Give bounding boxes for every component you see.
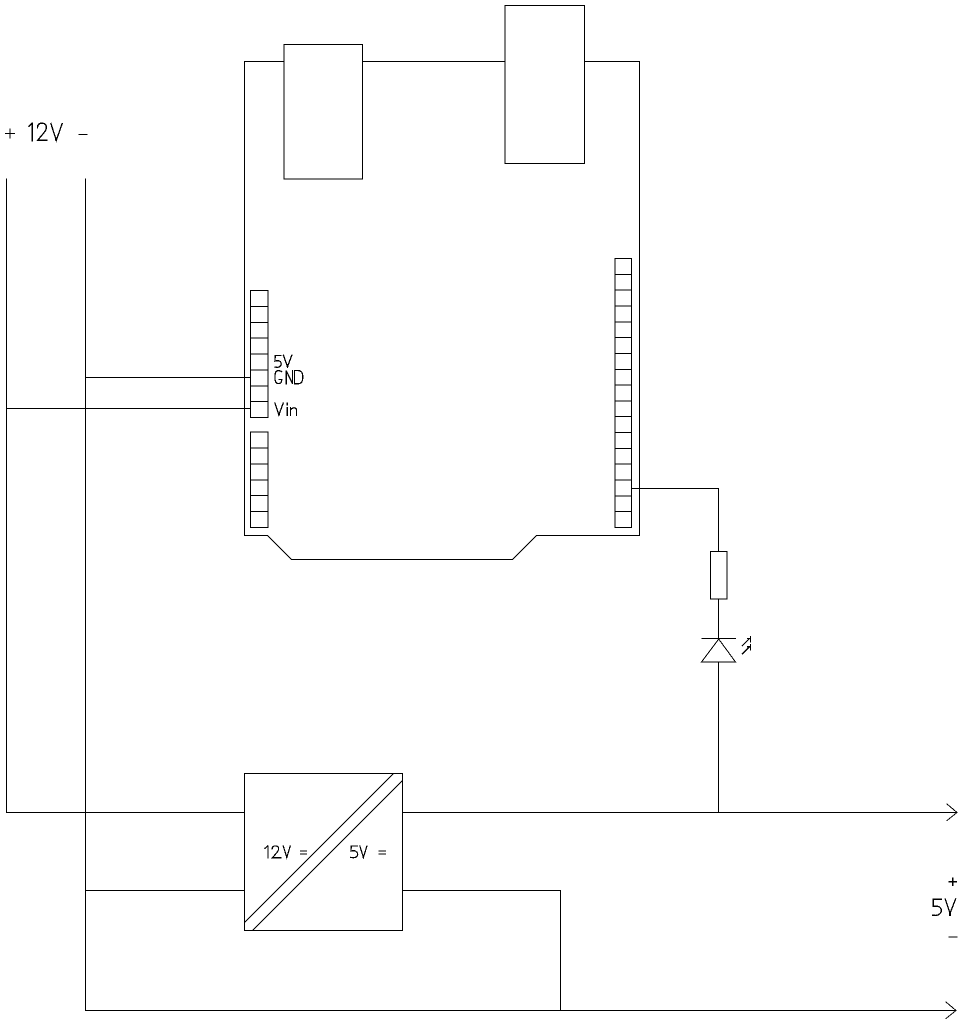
wire LED to 5V+ rail (node) bbox=[718, 662, 720, 813]
supply terminal label +12V- bbox=[6, 123, 87, 141]
wire 12V+ vertical rail down to converter bbox=[7, 179, 245, 813]
DC-DC converter U2 diagonal bbox=[245, 774, 403, 931]
converter label 12V = bbox=[265, 846, 307, 858]
LED D1 triangle bbox=[702, 639, 736, 662]
LED D1 cathode bar bbox=[702, 638, 736, 640]
pin label 5V bbox=[275, 355, 292, 367]
5V- rail arrowhead bbox=[946, 1002, 956, 1019]
LED light emission arrows bbox=[742, 637, 750, 654]
wire 12V- to converter input bbox=[86, 890, 245, 892]
terminal label - (5V-) bbox=[949, 936, 957, 938]
resistor R1 bbox=[711, 552, 728, 600]
wire GND pin to 12V- bbox=[86, 377, 251, 379]
terminal label + (5V+) bbox=[949, 878, 956, 885]
wire resistor to LED bbox=[718, 599, 720, 639]
converter label 5V = bbox=[351, 846, 385, 858]
wire 12V- vertical rail down to bottom bbox=[85, 179, 87, 1011]
wire Vin pin to 12V+ bbox=[7, 408, 251, 410]
5V- rail bbox=[86, 1010, 957, 1012]
5V+ rail arrowhead bbox=[947, 804, 957, 821]
5V+ rail bbox=[403, 812, 958, 814]
power jack connector X1 bbox=[284, 45, 363, 180]
wire digital pin to resistor bbox=[632, 489, 719, 552]
pin header J1 power pins (8) bbox=[251, 291, 269, 418]
Arduino board U1 outline bbox=[245, 62, 640, 560]
pin header J3 digital pins (17) bbox=[615, 259, 632, 528]
pin header J2 analog pins (6) bbox=[251, 432, 269, 528]
USB connector X2 bbox=[505, 6, 585, 164]
DC-DC converter U2 box bbox=[245, 774, 403, 931]
wire converter 5V- output bbox=[403, 891, 561, 1011]
terminal label 5V bbox=[933, 899, 956, 916]
pin label GND bbox=[275, 371, 303, 384]
pin label Vin bbox=[275, 403, 297, 416]
